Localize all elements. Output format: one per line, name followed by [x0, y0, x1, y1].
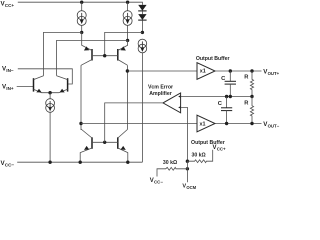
- sense dot R: [250, 95, 253, 98]
- output buffer U2: [191, 115, 225, 146]
- VOUT+ dot R1: [250, 69, 253, 72]
- capacitor C2: [218, 97, 232, 124]
- transistor Q4 top-right PNP cascode: [118, 40, 128, 65]
- rail dot Q5 emitter: [79, 161, 82, 164]
- diode D1: [138, 5, 146, 11]
- sense dot C2: [225, 95, 228, 98]
- VOUT+ label: [263, 68, 279, 76]
- svg-text:OUT+: OUT+: [268, 71, 280, 76]
- wire buffer1 output VOUT+ line: [215, 70, 262, 72]
- sense dot C1: [229, 95, 232, 98]
- wire CS2 bottom to node B: [127, 25, 129, 40]
- svg-text:R: R: [244, 75, 249, 81]
- wire CS1 top: [81, 2, 83, 11]
- svg-text:OUT−: OUT−: [268, 123, 280, 128]
- VCC- rail: [17, 161, 142, 163]
- resistor R1: [244, 71, 253, 97]
- svg-text:CC+: CC+: [5, 3, 15, 8]
- resistor R2: [244, 97, 253, 124]
- VOUT+ dot C1: [229, 69, 232, 72]
- wire OUT-B to buffer1 input: [127, 70, 197, 72]
- VCC- label: [1, 160, 15, 168]
- wire buffer2 output VOUT- line: [215, 123, 262, 125]
- svg-text:CC−: CC−: [5, 162, 15, 167]
- wire cascode base tie: [92, 55, 118, 57]
- wire VIN- to Q2 base: [18, 69, 73, 84]
- svg-text:IN−: IN−: [6, 68, 14, 73]
- svg-text:R: R: [244, 101, 249, 107]
- node OUT-B dot: [126, 69, 129, 72]
- wire Vcm output to mirror bases: [105, 103, 163, 142]
- wire CS1 bottom to node A: [81, 25, 83, 32]
- VOUT- dot R2: [250, 122, 253, 125]
- transistor Q2 input NPN right: [50, 76, 68, 93]
- node dot rail-CS1: [80, 1, 83, 4]
- Vcm amp input arrowheads: [178, 95, 180, 97]
- svg-text:x1: x1: [200, 122, 206, 128]
- rail dot Q6 emitter: [126, 161, 129, 164]
- output buffer U1: [196, 56, 230, 79]
- VOUT- dot C2: [225, 122, 228, 125]
- svg-text:C: C: [218, 101, 223, 107]
- wire mirror base tie: [92, 141, 118, 143]
- wire I3 bottom down to VCC- rail: [141, 53, 143, 162]
- svg-text:IN+: IN+: [6, 86, 14, 91]
- wire OUT-A to buffer2 input: [81, 123, 197, 125]
- wire I4 to VCC- rail: [49, 112, 51, 162]
- wire node A to left collector: [44, 32, 82, 75]
- node OUT-A dot: [79, 122, 82, 125]
- wire bias line node C to cascode bases: [105, 32, 143, 55]
- current source I1: [77, 11, 86, 26]
- wire common-mode sense line: [181, 96, 252, 98]
- resistor R3 30k to VCC+: [187, 150, 212, 163]
- svg-text:Amplifier: Amplifier: [149, 91, 171, 97]
- current source I4 tail: [46, 99, 55, 113]
- cascode base dot: [103, 54, 106, 57]
- svg-text:Vcm Error: Vcm Error: [148, 85, 173, 91]
- wire node OUT-B vertical (Q4 collector down): [126, 65, 128, 129]
- VIN+ label: [2, 83, 14, 91]
- current source I2: [123, 11, 132, 26]
- rail dot tail: [48, 161, 51, 164]
- wire VIN+ to Q1 base: [17, 86, 34, 88]
- node dot rail-CS2: [126, 1, 129, 4]
- wire node B to right collector: [57, 40, 128, 75]
- transistor Q6 bottom-right NPN mirror: [118, 130, 128, 163]
- svg-text:CC+: CC+: [217, 146, 226, 151]
- resistor R4 30k to VCC-: [157, 160, 187, 176]
- VOCM node dot lower: [186, 167, 189, 170]
- wire VOCM stub: [186, 161, 188, 182]
- VCC+ label for R3: [213, 145, 227, 152]
- node A dot: [80, 31, 83, 34]
- svg-text:OCM: OCM: [186, 185, 196, 190]
- wire D2 to node C: [141, 20, 143, 32]
- svg-text:30 kΩ: 30 kΩ: [163, 160, 177, 166]
- VOCM node dot upper: [186, 160, 189, 163]
- svg-text:Output Buffer: Output Buffer: [191, 140, 225, 146]
- wire Vcm lower input to VOCM node: [181, 107, 188, 161]
- wire node OUT-A vertical (Q3 collector down): [80, 65, 82, 130]
- node B dot: [126, 39, 129, 42]
- VCC- label for R4: [150, 178, 164, 185]
- diode D2: [138, 14, 146, 20]
- wire CS2 top: [127, 2, 129, 11]
- VCC+ label top-left: [1, 0, 15, 8]
- svg-text:30 kΩ: 30 kΩ: [191, 153, 205, 159]
- current source I3: [138, 39, 147, 53]
- svg-text:x1: x1: [200, 69, 206, 75]
- svg-text:Output Buffer: Output Buffer: [196, 56, 230, 62]
- transistor Q1 input NPN left: [34, 76, 51, 93]
- VIN- label: [2, 66, 14, 74]
- VOUT- label: [263, 121, 279, 129]
- wire tail down: [49, 93, 51, 99]
- transistor Q3 top-left PNP cascode: [81, 32, 92, 65]
- svg-text:CC−: CC−: [154, 179, 163, 184]
- VOCM label: [182, 184, 196, 190]
- VCC+ rail: [18, 2, 143, 4]
- mirror base dot: [103, 141, 106, 144]
- Vcm error amplifier U3: [148, 85, 181, 113]
- capacitor C1: [221, 71, 236, 97]
- wire D1-D2: [141, 11, 143, 14]
- tail node dot: [48, 91, 51, 94]
- transistor Q5 bottom-left NPN mirror: [80, 129, 92, 162]
- node C dot: [141, 31, 144, 34]
